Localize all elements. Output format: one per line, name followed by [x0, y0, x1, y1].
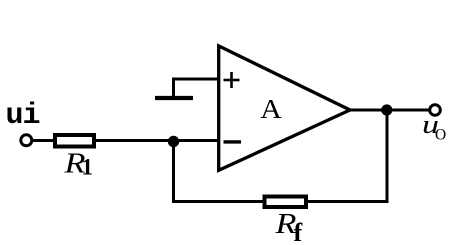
svg-text:ui: ui	[6, 99, 40, 133]
svg-text:1: 1	[82, 155, 94, 180]
svg-text:O: O	[435, 127, 446, 144]
svg-text:f: f	[294, 218, 303, 245]
svg-text:A: A	[260, 94, 282, 124]
